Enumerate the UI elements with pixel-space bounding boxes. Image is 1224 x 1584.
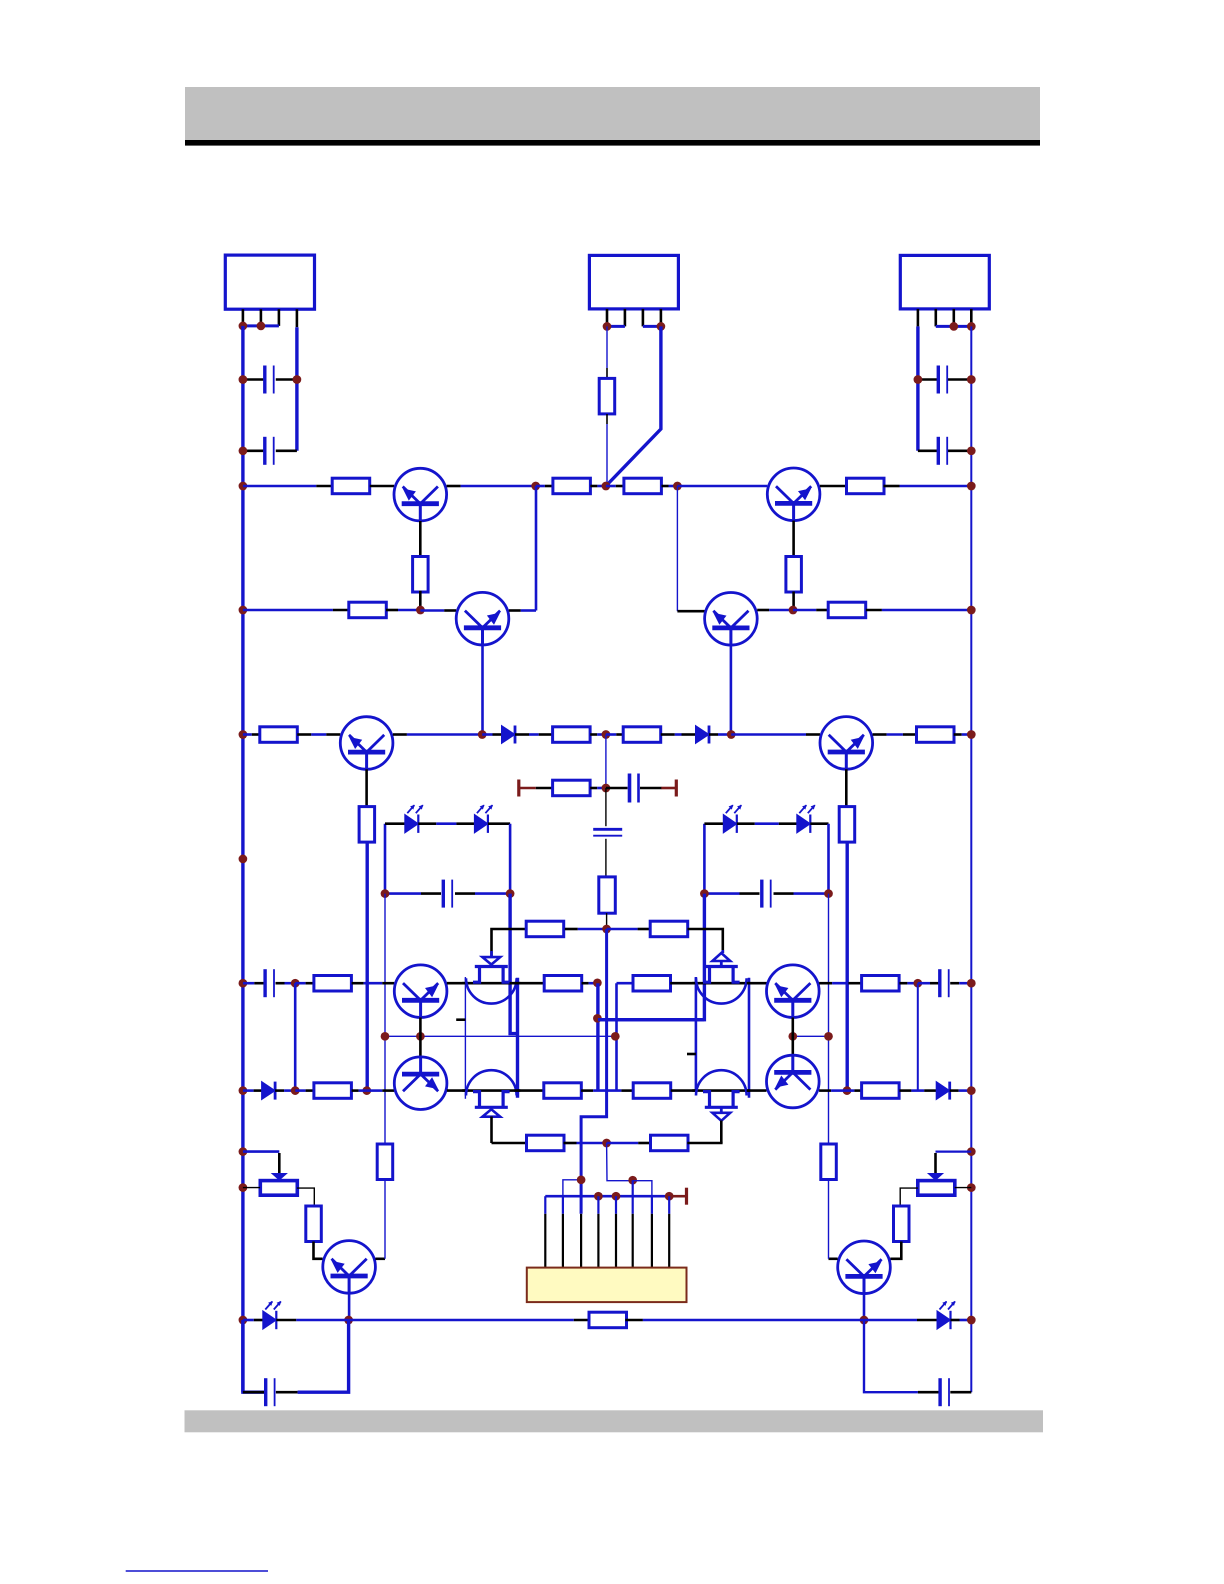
wire row5 h <box>670 982 696 985</box>
node railb right <box>967 1316 976 1325</box>
wire Q9 left lead <box>829 1258 838 1261</box>
wire rail1 a <box>243 485 332 488</box>
wire rail3 a <box>243 733 260 736</box>
wire R34 bottom lead <box>606 414 608 424</box>
wire source bus RR <box>748 978 751 1098</box>
transistor Q2 <box>456 592 509 645</box>
terminal TP1 <box>519 780 536 797</box>
wire R31-Q9 <box>890 1242 901 1259</box>
capacitor C3 <box>938 366 947 394</box>
node bus1 pin3 <box>577 1175 586 1184</box>
wire sub d <box>640 787 662 790</box>
wire row6 m <box>899 1089 936 1092</box>
node row5 right <box>967 979 976 988</box>
wire Q8 right lead <box>375 1258 385 1261</box>
wire rail1 b <box>370 485 394 488</box>
wire row5 m <box>950 982 971 985</box>
wire rail2 e <box>677 610 704 613</box>
resistor R33 <box>589 1312 627 1328</box>
node C7 left <box>381 889 390 898</box>
node C8 left <box>700 889 709 898</box>
wire C11 return <box>298 1320 349 1392</box>
connector J1 <box>527 1268 687 1303</box>
U2 pin1-2 bracket <box>607 325 625 328</box>
resistor R24 <box>544 1083 582 1099</box>
transistor Q10 <box>767 468 820 521</box>
wire rail2 f <box>757 609 793 612</box>
wire rail1 d <box>536 485 553 488</box>
LED D9 <box>263 1301 282 1329</box>
wire sub c <box>606 787 628 790</box>
potentiometer VR1 arrow <box>271 1173 288 1181</box>
wire C12 left stub <box>918 1391 940 1394</box>
resistor R18 <box>650 921 688 937</box>
wire sub a <box>536 787 553 790</box>
LED D6 <box>797 805 816 833</box>
U1 pin 2 <box>260 309 263 326</box>
node bus pin5 <box>612 1192 621 1201</box>
wire row5 d <box>352 982 395 985</box>
wire connector pin 7 <box>651 1196 653 1267</box>
node row5 segA <box>593 978 602 987</box>
node row8a right <box>967 1147 976 1156</box>
wire segA <box>596 983 599 1090</box>
header bar <box>185 87 1040 140</box>
wire railb d <box>574 1319 590 1322</box>
resistor R5 <box>413 557 429 593</box>
transistor Q11 <box>767 965 820 1018</box>
wire R6 to rail2 <box>792 592 795 611</box>
resistor R11 <box>623 727 661 743</box>
wire VR1 wiper lead <box>278 1153 281 1174</box>
wire rail2 c <box>420 609 456 612</box>
wire Q9 base drop <box>863 1294 866 1320</box>
wire row5 j <box>819 982 861 985</box>
wire pot2 top feed <box>936 1150 972 1152</box>
footer bar <box>185 1410 1044 1432</box>
diode D8 <box>936 1082 950 1100</box>
node railb left <box>239 1316 248 1325</box>
capacitor C6 <box>593 829 622 835</box>
node U1 pin1 <box>239 322 248 331</box>
wire row5 e <box>447 982 468 985</box>
node row6 left <box>239 1086 248 1095</box>
wire M1 gate feed <box>490 951 493 957</box>
node rail2 Q10b <box>789 606 798 615</box>
wire row6 b <box>275 1089 295 1092</box>
wire stub RL <box>687 1053 696 1056</box>
wire row6 e <box>367 1089 395 1092</box>
wire rail3 f <box>590 733 606 736</box>
wire rail3 l <box>954 733 972 736</box>
node rail1 mid <box>602 482 611 491</box>
wire Q8 base drop <box>348 1293 351 1320</box>
wire rail2 a <box>243 609 349 612</box>
resistor R2 <box>553 478 591 494</box>
transistor Q5 <box>820 717 873 770</box>
wire row5 b <box>276 982 296 985</box>
wire row5-row6 link left <box>294 983 297 1090</box>
wire railb g <box>864 1319 937 1322</box>
node row6 c9 <box>291 1086 300 1095</box>
wire D5 anode lead <box>704 822 723 825</box>
wire U2 pin1 drop a <box>606 326 608 368</box>
wire pot1 top feed <box>243 1150 279 1153</box>
node rail1 left <box>239 482 248 491</box>
wire LED row right frame R <box>827 824 830 894</box>
node C1 right <box>293 375 302 384</box>
wire C3 left lead <box>918 378 939 381</box>
wire connector pin 8 <box>668 1196 670 1267</box>
transistor Q8 <box>323 1241 376 1294</box>
wire rail2 b <box>386 609 420 612</box>
wire C7 right lead <box>455 892 510 895</box>
wire row6 i <box>671 1089 696 1092</box>
capacitor C2 <box>265 437 274 465</box>
node bus1 pin6 <box>628 1176 637 1185</box>
wire railb h <box>951 1319 972 1322</box>
wire rail3 k <box>873 733 917 736</box>
node rail3 Q2b <box>478 730 487 739</box>
wire row6 l <box>847 1089 861 1092</box>
capacitor C8 <box>762 880 771 908</box>
node rail2 Q1b <box>416 606 425 615</box>
potentiometer VR2 body <box>918 1181 955 1196</box>
wire row5b right <box>793 1035 829 1037</box>
wire left thick column <box>510 894 517 1034</box>
wire railb f <box>643 1319 864 1322</box>
node left rail mid <box>239 855 248 864</box>
wire row7 a <box>492 1142 527 1145</box>
wire center column <box>581 929 607 1214</box>
wire Q4 riser <box>676 486 678 611</box>
node row5b b <box>824 1032 833 1041</box>
LED D4 <box>474 805 493 833</box>
wire rail3 e <box>515 733 553 736</box>
wire rail3 d <box>482 733 501 736</box>
wire row5 k <box>899 982 917 985</box>
wire LED row right frame <box>509 824 512 894</box>
node sub mid <box>602 784 611 793</box>
wire row5-row6 link right <box>917 983 919 1090</box>
node rail3 left <box>239 730 248 739</box>
resistor R4 <box>847 478 885 494</box>
wire row6 c <box>295 1089 313 1092</box>
IC box U1 <box>225 255 314 309</box>
wire right thin col low <box>828 1180 830 1259</box>
resistor R31 <box>894 1206 910 1242</box>
wire row7 c <box>607 1142 652 1145</box>
U3 pin 1 <box>917 309 920 327</box>
node U1 pin2 <box>257 322 266 331</box>
wire left thin col low <box>384 1180 386 1259</box>
wire sub b <box>590 787 606 790</box>
wire source bus LL <box>464 977 466 1099</box>
IC box U3 <box>900 255 989 309</box>
resistor R28 <box>651 1135 689 1151</box>
U2 pin 1 <box>606 309 609 327</box>
wire row6 d <box>352 1089 367 1092</box>
node C8 right <box>824 889 833 898</box>
transistor Q6 <box>394 965 447 1018</box>
wire U1 pin4 drop <box>295 327 298 451</box>
wire row6 f <box>447 1089 468 1092</box>
wire C12 right stub <box>950 1391 971 1394</box>
node C4 right <box>967 446 976 455</box>
wire rail1 i <box>820 485 847 488</box>
wire left rail V+ <box>241 326 244 1392</box>
LED D3 <box>405 805 424 833</box>
wire sub-C6 <box>605 788 607 826</box>
IC box U2 <box>589 255 678 309</box>
resistor R20 <box>544 976 582 992</box>
wire row5-row6 drop <box>615 983 618 1090</box>
wire row5b left <box>385 1035 617 1037</box>
wire C8 left lead <box>704 892 759 895</box>
wire connector pin 4 <box>597 1196 599 1267</box>
wire connector pin 3 lower <box>580 1214 582 1268</box>
resistor R26 <box>862 1083 900 1099</box>
node row4 mid <box>602 925 611 934</box>
MOSFET M2 <box>692 953 750 1004</box>
wire LED row left frame R <box>703 824 706 894</box>
U2 pin 2 <box>624 309 627 327</box>
wire D4 cathode lead <box>488 822 510 825</box>
wire M3 gate feed <box>490 1117 493 1144</box>
wire row6 k <box>819 1089 847 1092</box>
capacitor C9 <box>265 969 274 997</box>
wire Q3 base lead <box>365 769 368 806</box>
transistor Q7 <box>394 1056 447 1109</box>
wire connector pin 1 <box>544 1196 546 1267</box>
wire row4 b <box>565 928 607 931</box>
node bus pin4 <box>594 1192 603 1201</box>
wire Q1 base lead <box>419 521 422 558</box>
U1 pin tie bar <box>243 324 279 327</box>
node Q9-rail <box>860 1316 869 1325</box>
node U2 pin1 <box>603 322 612 331</box>
wire row5 a <box>243 982 264 985</box>
wire D3 anode lead <box>385 822 405 825</box>
wire row5 corner right <box>617 982 634 985</box>
node rail2 left <box>239 606 248 615</box>
MOSFET M3 <box>462 1070 520 1117</box>
footnote rule <box>126 1570 268 1572</box>
U2 pin 3 <box>642 309 645 327</box>
wire M4 gate feed <box>720 1121 723 1144</box>
resistor R6 <box>786 557 802 593</box>
wire row7 b <box>564 1142 607 1145</box>
wire right rail V- <box>970 326 972 1392</box>
wire Q6-Q7 link <box>419 1018 422 1057</box>
wire main bus <box>545 1195 672 1198</box>
wire C11 left stub <box>243 1391 265 1394</box>
U1 pin 4 <box>296 309 299 327</box>
potentiometer VR1 body <box>260 1181 297 1196</box>
wire rail2 d <box>509 609 536 612</box>
LED D10 <box>937 1301 956 1329</box>
wire C4 right lead <box>948 449 972 452</box>
wire C1 left lead <box>243 378 264 381</box>
capacitor C12 <box>940 1378 949 1406</box>
node C2 left <box>239 446 248 455</box>
wire row7 d <box>687 1142 722 1145</box>
resistor R27 <box>527 1135 565 1151</box>
wire segZ <box>598 1018 705 1021</box>
wire railb e <box>625 1319 643 1322</box>
node row5b corner <box>611 1032 620 1041</box>
wire C8 right lead <box>774 892 829 895</box>
wire row4 left gate feed <box>492 929 527 957</box>
node rail3 mid <box>602 730 611 739</box>
wire C11 right stub <box>276 1391 298 1394</box>
transistor Q12 <box>767 1055 820 1108</box>
node R13-row6 <box>362 1086 371 1095</box>
wire rail3 b <box>297 733 340 736</box>
wire rail1 e <box>590 485 606 488</box>
transistor Q3 <box>340 717 393 770</box>
wire R16-row4 <box>606 913 608 929</box>
wire row7-bus1 S <box>607 1143 633 1181</box>
wire row5 c <box>295 982 313 985</box>
node row8b right <box>967 1183 976 1192</box>
resistor R25 <box>633 1083 671 1099</box>
wire U2 pin1 drop b <box>606 424 608 486</box>
node segA mid <box>593 1014 602 1023</box>
resistor R14 <box>839 807 855 843</box>
terminal TP2 <box>661 780 676 797</box>
wire R34 top lead <box>606 368 608 379</box>
capacitor C7 <box>443 880 452 908</box>
node C3 left <box>914 375 923 384</box>
resistor R10 <box>553 727 591 743</box>
wire R5 to rail2 <box>419 591 422 610</box>
wire U2 pin4 drop diagonal <box>606 326 661 486</box>
wire connector pin 5 <box>615 1196 617 1267</box>
wire source bus RL <box>695 977 698 1091</box>
wire row6 j <box>747 1089 767 1092</box>
wire row5 i <box>747 982 767 985</box>
wire C2 left lead <box>243 449 264 452</box>
resistor R16 <box>599 877 616 913</box>
MOSFET M4 <box>692 1070 750 1121</box>
resistor R12 <box>917 727 955 743</box>
node row5b Q1112 <box>788 1032 797 1041</box>
capacitor C1 <box>265 366 274 394</box>
wire pot1 right lead <box>297 1188 314 1206</box>
wire C3 right lead <box>948 378 972 381</box>
resistor R21 <box>633 976 671 992</box>
node C1 left <box>239 375 248 384</box>
wire rail3 c <box>393 733 482 736</box>
node row5 c9 <box>291 979 300 988</box>
wire railb c <box>349 1319 574 1322</box>
MOSFET M1 <box>462 957 520 1004</box>
node R14-row6 <box>843 1086 852 1095</box>
wire Q5 base lead <box>845 769 848 806</box>
header rule <box>185 140 1040 146</box>
wire D6 cathode lead <box>810 822 828 825</box>
resistor R9 <box>260 727 298 743</box>
resistor R15 <box>553 780 591 796</box>
wire pot2 left lead <box>900 1188 918 1206</box>
wire stub LL <box>456 1018 465 1021</box>
node rail3 Q4b <box>727 730 736 739</box>
wire R29-Q8 <box>314 1242 323 1259</box>
wire row5 g <box>582 982 598 985</box>
wire C11 loop <box>243 1320 265 1392</box>
wire rail2 h <box>866 609 971 612</box>
node C7 right <box>506 889 515 898</box>
resistor R8 <box>828 602 866 618</box>
resistor R23 <box>314 1083 352 1099</box>
U3 pin 3 <box>952 309 955 327</box>
terminal TP3 <box>672 1188 686 1205</box>
resistor R34 <box>599 378 615 414</box>
wire rail2 g <box>793 609 828 612</box>
wire C1 right lead <box>276 378 297 381</box>
wire rail3-sub link <box>605 735 607 789</box>
wire Q11-Q12 link <box>791 1018 794 1055</box>
resistor R17 <box>526 921 564 937</box>
wire R13 drop <box>366 842 369 1090</box>
wire connector pin 6 <box>632 1180 634 1267</box>
transistor Q4 <box>705 593 758 646</box>
resistor R13 <box>359 807 375 843</box>
wire C12 loop <box>864 1320 918 1392</box>
node U2 pin4 <box>657 322 666 331</box>
wire LED link R <box>737 822 797 825</box>
resistor R32 <box>821 1144 837 1180</box>
U3 pin tie bar <box>936 325 972 328</box>
node row5 left <box>239 979 248 988</box>
wire rail3 j <box>731 733 820 736</box>
wire row5 l <box>918 982 939 985</box>
U2 pin3-4 bracket <box>643 325 661 328</box>
capacitor C5 <box>630 774 639 803</box>
wire rail1 j <box>884 485 972 488</box>
node row8b left <box>239 1183 248 1192</box>
diode D1 <box>502 726 516 744</box>
wire rail3 i <box>709 733 731 736</box>
resistor R30 <box>377 1144 393 1180</box>
node rail2 right <box>967 606 976 615</box>
wire rail1 h <box>677 485 767 488</box>
transistor Q9 <box>838 1241 891 1294</box>
diode D7 <box>262 1082 276 1100</box>
resistor R7 <box>349 602 387 618</box>
wire Q2 base drop <box>481 645 484 735</box>
wire railb b <box>276 1319 348 1322</box>
node rail1 Q2c <box>531 482 540 491</box>
wire rail1 g <box>662 485 678 488</box>
wire C7 left lead <box>385 892 441 895</box>
wire left thin column <box>384 894 386 1144</box>
capacitor C4 <box>938 437 947 465</box>
resistor R19 <box>314 976 352 992</box>
transistor Q1 <box>394 468 447 521</box>
node row8a left <box>239 1147 248 1156</box>
node Q8-rail <box>344 1316 353 1325</box>
wire U3 pin1 drop <box>916 326 919 450</box>
wire row6 n <box>950 1089 972 1092</box>
wire pot1 left lead <box>243 1187 260 1189</box>
wire rail3 g <box>606 733 623 736</box>
wire Q4 base drop <box>730 645 733 734</box>
U1 pin 1 <box>242 309 245 326</box>
wire C4 left lead <box>918 449 939 452</box>
node row6 right <box>967 1086 976 1095</box>
